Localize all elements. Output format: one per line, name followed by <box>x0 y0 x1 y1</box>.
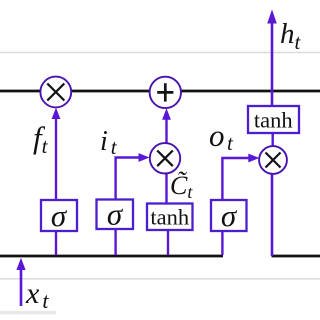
arrowhead into multiply node 2 <box>139 153 150 162</box>
wire: tanh box (mid) up to multiply node 2 <box>165 173 167 204</box>
sigma box 2 (input gate) <box>97 200 134 230</box>
arrowhead into multiply node 1 <box>52 108 61 119</box>
wire: tanh box (mid) to bottom line <box>167 230 169 255</box>
wire: i_t elbow from sigma2 to multiply node 2 <box>116 158 146 200</box>
wire: multiply node 3 down then to bottom right line <box>271 174 274 257</box>
svg-text:σ: σ <box>107 197 124 232</box>
svg-text:tanh: tanh <box>150 205 189 230</box>
svg-text:tanh: tanh <box>254 108 293 133</box>
wire: input line x_t (bottom horizontal) <box>0 255 223 258</box>
faint partial line bottom-left <box>0 311 56 314</box>
arrowhead into add node <box>162 108 171 119</box>
wire: tanh out box down to multiply node 3 <box>272 133 274 147</box>
faint separator line top <box>0 52 320 54</box>
wire: o_t elbow from sigma3 to multiply node 3 <box>222 158 255 200</box>
tanh box (output) <box>248 106 299 133</box>
wire: multiply node 2 up to add node <box>165 114 167 144</box>
sigma box 1 (forget gate) <box>41 200 77 231</box>
wire: h_t output to right (bottom right horizontal) <box>272 255 320 258</box>
wire: sigma2 to bottom line <box>114 229 116 255</box>
multiply node 2 (input gate product) <box>150 143 180 173</box>
wire: f_t vertical from sigma1 to multiply node <box>55 114 57 200</box>
multiply node 3 (output gate product) <box>259 146 287 174</box>
faint separator line bottom <box>0 278 320 280</box>
wire: h_t vertical up arrow <box>271 21 274 106</box>
wire: sigma1 to bottom line <box>55 231 57 255</box>
arrowhead into multiply node 3 <box>248 154 259 163</box>
svg-text:σ: σ <box>51 198 68 233</box>
multiply node 1 (circle x on cell line) <box>40 77 71 108</box>
arrowhead of x_t <box>16 258 25 270</box>
tanh box (candidate) <box>147 204 193 231</box>
add node (circle + on cell line) <box>150 77 181 108</box>
svg-text:σ: σ <box>221 198 238 233</box>
wire: x_t input arrow <box>20 263 23 306</box>
wire: sigma3 to bottom line <box>221 231 223 255</box>
wire: cell-state line C (top horizontal) <box>0 90 320 93</box>
sigma box 3 (output gate) <box>211 200 247 231</box>
arrowhead of h_t <box>267 10 277 24</box>
